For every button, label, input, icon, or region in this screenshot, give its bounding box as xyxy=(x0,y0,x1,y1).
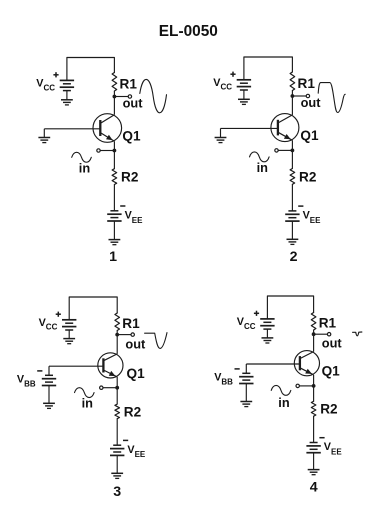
svg-text:R1: R1 xyxy=(120,76,138,91)
label Vcc (circuit 3) xyxy=(39,317,58,332)
label R1 (circuit 1) xyxy=(120,76,138,91)
battery Vee (circuit 1) xyxy=(107,211,121,221)
wire (out node to terminal, circuit 1) xyxy=(114,96,128,98)
wire (Vee to ground, circuit 2) xyxy=(291,221,293,239)
resistor R2 (circuit 4) xyxy=(311,401,316,416)
battery Vcc (circuit 2) xyxy=(237,80,251,90)
label R2 (circuit 1) xyxy=(121,170,139,185)
svg-text:R2: R2 xyxy=(320,402,338,417)
label in (circuit 3) xyxy=(82,396,94,411)
node in (circuit 2) xyxy=(291,149,295,153)
minus sign Vbb (circuit 3) xyxy=(37,370,42,372)
wire (base to Vbb, circuit 3) xyxy=(48,366,50,375)
wire (Vcc to R1 top rail, circuit 4) xyxy=(267,296,313,319)
label Vee (circuit 4) xyxy=(324,441,343,456)
label out (circuit 3) xyxy=(125,336,146,351)
plus sign Vcc (circuit 3) xyxy=(56,312,61,317)
svg-text:R2: R2 xyxy=(124,404,142,419)
svg-text:2: 2 xyxy=(290,249,298,265)
waveform in (circuit 1) xyxy=(72,152,92,162)
wire (out node to terminal, circuit 2) xyxy=(292,95,306,97)
wire (in node to R2, circuit 1) xyxy=(113,151,115,169)
wire (Vbb to ground, circuit 3) xyxy=(48,386,50,404)
wire (base, circuit 2) xyxy=(221,127,278,129)
label R1 (circuit 2) xyxy=(298,76,316,91)
wire (in node to terminal, circuit 4) xyxy=(300,385,314,387)
svg-text:out: out xyxy=(301,95,322,110)
ground (below Vcc, circuit 4) xyxy=(262,338,274,343)
label Q1 (circuit 2) xyxy=(300,128,319,143)
wire (Vee to ground, circuit 3) xyxy=(116,455,118,473)
label Vcc (circuit 2) xyxy=(213,77,232,92)
svg-text:in: in xyxy=(82,396,94,411)
label number 2 xyxy=(290,249,298,265)
label Vcc (circuit 1) xyxy=(36,77,55,92)
minus sign Vbb (circuit 4) xyxy=(235,368,240,370)
wire (Vcc to R1 top rail, circuit 3) xyxy=(69,297,117,320)
transistor Q1 (circuit 1) xyxy=(93,114,122,143)
svg-text:out: out xyxy=(125,336,146,351)
minus sign Vee (circuit 2) xyxy=(298,205,303,207)
svg-text:in: in xyxy=(79,161,91,176)
resistor R2 (circuit 3) xyxy=(115,404,120,419)
wire (base, circuit 3) xyxy=(49,365,103,367)
battery Vee (circuit 4) xyxy=(306,443,320,453)
terminal in (circuit 3) xyxy=(100,386,103,389)
ground (below Vcc, circuit 1) xyxy=(61,100,73,105)
svg-text:R2: R2 xyxy=(299,169,317,184)
wire (in node to terminal, circuit 2) xyxy=(278,149,292,151)
svg-text:4: 4 xyxy=(310,480,318,496)
transistor Q1 (circuit 3) xyxy=(98,353,123,378)
resistor R1 (circuit 4) xyxy=(311,313,316,331)
transistor Q1 (circuit 2) xyxy=(271,114,299,142)
waveform out (circuit 1) xyxy=(140,79,167,112)
resistor R1 (circuit 3) xyxy=(115,313,120,331)
wire (emitter to in node, circuit 2) xyxy=(291,140,293,150)
svg-text:R2: R2 xyxy=(121,170,139,185)
resistor R1 (circuit 1) xyxy=(112,73,117,92)
svg-text:Q1: Q1 xyxy=(127,366,146,381)
label in (circuit 4) xyxy=(278,395,290,410)
node in (circuit 4) xyxy=(312,384,316,388)
label out (circuit 2) xyxy=(301,95,322,110)
wire (R1 to out node, circuit 3) xyxy=(116,331,118,335)
ground (bottom, circuit 3) xyxy=(111,473,123,478)
label Vbb (circuit 4) xyxy=(214,372,233,387)
svg-text:3: 3 xyxy=(113,484,121,500)
battery Vbb (circuit 4) xyxy=(239,373,253,383)
label in (circuit 1) xyxy=(79,161,91,176)
label Vcc (circuit 4) xyxy=(237,316,256,331)
node out (circuit 2) xyxy=(291,94,295,98)
minus sign Vee (circuit 3) xyxy=(123,439,128,441)
wire (out node to collector, circuit 3) xyxy=(116,335,118,354)
svg-text:EL-0050: EL-0050 xyxy=(159,23,218,40)
svg-text:R1: R1 xyxy=(122,316,140,331)
label Vee (circuit 3) xyxy=(127,444,146,459)
label R1 (circuit 4) xyxy=(319,315,337,330)
wire (base to ground, circuit 2) xyxy=(220,128,222,137)
label Q1 (circuit 1) xyxy=(122,128,141,143)
svg-text:Q1: Q1 xyxy=(122,128,141,143)
wire (out node to collector, circuit 2) xyxy=(291,96,293,115)
label number 1 xyxy=(109,249,117,265)
title EL-0050 xyxy=(159,23,218,40)
wire (Vcc to R1 top rail, circuit 2) xyxy=(244,57,293,80)
ground (below Vbb, circuit 4) xyxy=(240,402,252,407)
svg-text:Q1: Q1 xyxy=(300,128,319,143)
plus sign Vcc (circuit 1) xyxy=(53,72,58,77)
wire (emitter to in node, circuit 4) xyxy=(313,375,315,386)
label Vee (circuit 1) xyxy=(125,209,144,224)
node out (circuit 1) xyxy=(113,95,117,99)
terminal out (circuit 3) xyxy=(131,333,134,336)
wire (out node to terminal, circuit 3) xyxy=(117,334,131,336)
label Vee (circuit 2) xyxy=(303,210,322,225)
ground (bottom, circuit 4) xyxy=(308,470,320,475)
waveform in (circuit 4) xyxy=(271,385,291,395)
battery Vbb (circuit 3) xyxy=(42,375,56,385)
plus sign Vcc (circuit 4) xyxy=(254,311,259,316)
terminal in (circuit 1) xyxy=(97,149,100,152)
node out (circuit 4) xyxy=(312,332,316,336)
wire (R1 to out node, circuit 1) xyxy=(113,91,115,97)
svg-text:out: out xyxy=(123,96,144,111)
wire (R2 to Vee, circuit 3) xyxy=(116,419,118,446)
node out (circuit 3) xyxy=(115,333,119,337)
label Q1 (circuit 4) xyxy=(322,364,341,379)
terminal out (circuit 2) xyxy=(306,94,309,97)
wire (in node to R2, circuit 3) xyxy=(116,388,118,404)
wire (in node to terminal, circuit 1) xyxy=(100,150,114,152)
waveform in (circuit 3) xyxy=(75,388,95,398)
node in (circuit 1) xyxy=(113,149,117,153)
svg-text:Q1: Q1 xyxy=(322,364,341,379)
wire (R2 to Vee, circuit 2) xyxy=(291,184,293,211)
resistor R2 (circuit 2) xyxy=(290,169,295,185)
terminal in (circuit 2) xyxy=(275,149,278,152)
wire (in node to terminal, circuit 3) xyxy=(103,387,117,389)
wire (R1 to out node, circuit 2) xyxy=(291,91,293,97)
waveform in (circuit 2) xyxy=(250,152,270,162)
waveform out (circuit 4) xyxy=(353,332,362,336)
wire (R2 to Vee, circuit 4) xyxy=(313,416,315,442)
ground (bottom, circuit 1) xyxy=(109,240,121,245)
wire (out node to collector, circuit 1) xyxy=(113,97,115,115)
wire (Vee to ground, circuit 4) xyxy=(313,453,315,470)
ground (below Vbb, circuit 3) xyxy=(43,403,55,408)
wire (Vcc to ground, circuit 2) xyxy=(243,90,245,99)
label R2 (circuit 3) xyxy=(124,404,142,419)
label R2 (circuit 4) xyxy=(320,402,338,417)
wire (Vbb to ground, circuit 4) xyxy=(245,384,247,402)
ground (bottom, circuit 2) xyxy=(287,239,299,244)
wire (Vcc to ground, circuit 1) xyxy=(66,91,68,100)
wire (Vee to ground, circuit 1) xyxy=(113,221,115,240)
battery Vcc (circuit 1) xyxy=(60,80,74,90)
wire (base to ground, circuit 1) xyxy=(43,129,45,138)
ground (base, circuit 2) xyxy=(215,138,227,143)
svg-text:R1: R1 xyxy=(319,315,337,330)
wire (out node to terminal, circuit 4) xyxy=(314,333,328,335)
wire (out node to collector, circuit 4) xyxy=(313,334,315,351)
waveform out (circuit 2) xyxy=(318,83,345,113)
battery Vee (circuit 2) xyxy=(285,211,299,221)
terminal out (circuit 4) xyxy=(327,333,330,336)
wire (base, circuit 4) xyxy=(246,363,300,365)
wire (base, circuit 1) xyxy=(44,128,100,130)
ground (below Vcc, circuit 3) xyxy=(63,339,75,344)
plus sign Vcc (circuit 2) xyxy=(230,72,235,77)
svg-text:in: in xyxy=(278,395,290,410)
transistor Q1 (circuit 4) xyxy=(294,351,319,376)
waveform out (circuit 3) xyxy=(145,333,167,349)
battery Vee (circuit 3) xyxy=(110,445,124,455)
label number 3 xyxy=(113,484,121,500)
terminal in (circuit 4) xyxy=(296,384,299,387)
label out (circuit 1) xyxy=(123,96,144,111)
label in (circuit 2) xyxy=(257,160,269,175)
wire (R1 to out node, circuit 4) xyxy=(313,330,315,334)
label out (circuit 4) xyxy=(322,336,343,351)
minus sign Vee (circuit 1) xyxy=(120,205,125,207)
svg-text:1: 1 xyxy=(109,249,117,265)
ground (below Vcc, circuit 2) xyxy=(238,99,250,104)
wire (in node to R2, circuit 4) xyxy=(313,386,315,401)
wire (in node to R2, circuit 2) xyxy=(291,150,293,168)
battery Vcc (circuit 3) xyxy=(62,320,76,330)
wire (Vcc to ground, circuit 4) xyxy=(266,329,268,338)
ground (base, circuit 1) xyxy=(38,138,50,143)
resistor R1 (circuit 2) xyxy=(290,72,295,91)
label number 4 xyxy=(310,480,318,496)
node in (circuit 3) xyxy=(115,386,119,390)
label Q1 (circuit 3) xyxy=(127,366,146,381)
label R1 (circuit 3) xyxy=(122,316,140,331)
battery Vcc (circuit 4) xyxy=(260,319,274,329)
wire (Vcc to R1 top rail, circuit 1) xyxy=(67,58,115,81)
minus sign Vee (circuit 4) xyxy=(319,437,324,439)
svg-text:out: out xyxy=(322,336,343,351)
wire (emitter to in node, circuit 3) xyxy=(116,377,118,388)
svg-text:R1: R1 xyxy=(298,76,316,91)
svg-text:in: in xyxy=(257,160,269,175)
wire (R2 to Vee, circuit 1) xyxy=(113,185,115,211)
wire (emitter to in node, circuit 1) xyxy=(113,141,115,150)
wire (Vcc to ground, circuit 3) xyxy=(68,330,70,339)
label R2 (circuit 2) xyxy=(299,169,317,184)
label Vbb (circuit 3) xyxy=(17,374,36,389)
terminal out (circuit 1) xyxy=(128,95,131,98)
wire (base to Vbb, circuit 4) xyxy=(245,364,247,373)
resistor R2 (circuit 1) xyxy=(112,169,117,185)
